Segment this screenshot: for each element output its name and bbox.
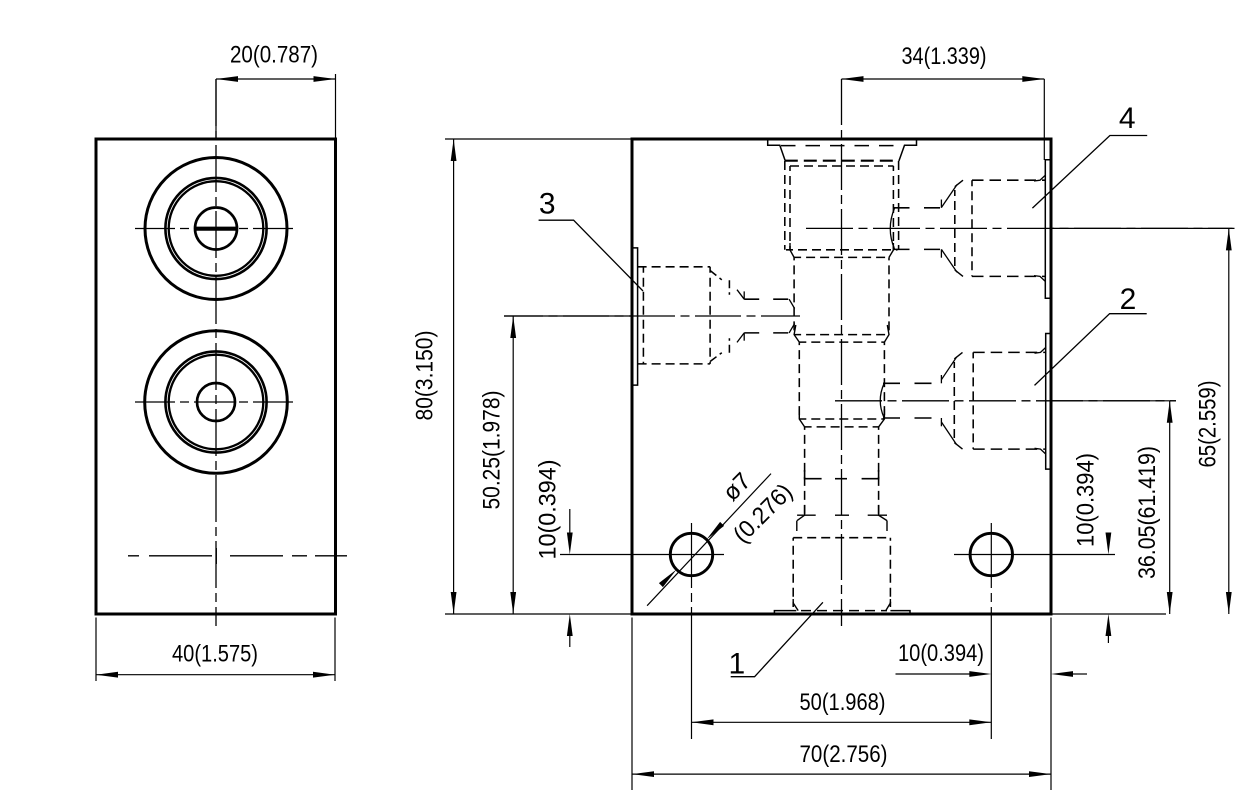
dim 34 extension right <box>1043 79 1045 160</box>
label 4 leader <box>1032 136 1147 209</box>
valve seat edge middle dash <box>835 478 847 480</box>
svg-text:20(0.787): 20(0.787) <box>230 42 318 69</box>
dia 7 arrow upper-right <box>707 522 725 540</box>
port4 thread runout bottom <box>940 249 942 257</box>
label 1 leader <box>731 602 823 676</box>
port2 pilot bore top <box>883 382 941 384</box>
port T bottom: counterbore ring outer <box>165 351 266 452</box>
cavity step 3 corner left <box>799 409 804 427</box>
dim 70 extension right <box>1050 618 1052 791</box>
dim 10 left arrow lower <box>567 614 573 636</box>
port2 chamfer corner bottom <box>954 443 962 450</box>
bolt hole left vertical centerline <box>691 523 693 739</box>
port2 counterbore bottom <box>973 448 1046 450</box>
port3 counterbore top <box>638 266 711 268</box>
port3 cone top <box>737 290 744 300</box>
bolt hole left circle <box>670 533 712 575</box>
dim 20 arrow right <box>314 76 336 82</box>
port4 boss face line <box>1045 160 1050 298</box>
port2 thread relief wall <box>953 362 955 440</box>
dim 40 dimension line <box>96 674 335 676</box>
port P top: counterbore ring inner <box>169 181 264 276</box>
svg-text:3: 3 <box>539 188 556 221</box>
thread section outer wall left <box>784 161 786 250</box>
valve seat edge left <box>805 470 822 479</box>
bottom chamfer shelf left <box>797 514 816 516</box>
svg-text:1: 1 <box>729 647 746 680</box>
port4 pilot bore top <box>894 207 942 209</box>
svg-text:36.05(61.419): 36.05(61.419) <box>1134 446 1161 579</box>
port3 cone bottom <box>737 333 744 343</box>
cavity step 2 corner right <box>884 325 889 342</box>
port P top: horizontal centerline <box>135 228 297 230</box>
bottom counterbore top edge <box>793 537 890 539</box>
cavity step 1 upper edge <box>786 249 898 251</box>
port4 counterbore bottom <box>972 275 1045 277</box>
bolt hole left horizontal centerline <box>560 554 724 556</box>
port4 counterbore tick bottom <box>1034 276 1045 282</box>
dim 80 arrow bottom <box>451 592 457 614</box>
main cavity vertical centerline <box>841 79 843 626</box>
port2 pilot bore bottom <box>883 417 941 419</box>
port2 counterbore top <box>973 351 1046 353</box>
port T bottom: outer circle <box>145 331 288 474</box>
dim 50 arrow left <box>692 719 714 725</box>
port4 chamfer corner bottom <box>955 270 963 277</box>
port2 boss face line <box>1046 334 1051 470</box>
port4 counterbore tick top <box>1034 175 1045 181</box>
bottom chamfer middle dash <box>835 514 849 516</box>
dim 10 right tail upper <box>1107 533 1109 548</box>
cavity step 2 upper edge <box>794 334 889 336</box>
dim 10 left arrow upper <box>567 533 573 555</box>
section2 wall left <box>793 257 795 334</box>
dim 20 extension lines <box>215 79 217 139</box>
port3 pilot bore bottom <box>744 332 789 334</box>
svg-text:10(0.394): 10(0.394) <box>1073 453 1100 547</box>
dim 20 arrow left <box>216 76 238 82</box>
cavity step 1 corner left <box>790 243 794 257</box>
top spot-face recess right wall <box>899 140 917 161</box>
dim 40 arrow right <box>313 672 335 678</box>
thread section inner wall left <box>789 166 791 250</box>
dim 36.05 arrow top <box>1167 401 1173 423</box>
port4 centerline <box>806 227 1235 229</box>
port2 thread runout bottom <box>940 418 942 426</box>
bottom recess left wall <box>774 611 796 614</box>
section3 wall right <box>883 342 885 419</box>
block outline right view <box>632 139 1051 614</box>
dim 10 bottom tail right <box>1073 673 1087 675</box>
dim 70 extension left <box>631 618 633 791</box>
bottom counterbore corner left <box>793 599 798 611</box>
svg-text:80(3.150): 80(3.150) <box>412 331 439 421</box>
port3 drill point bottom <box>789 324 795 333</box>
top spot-face recess left wall <box>768 140 786 161</box>
dim 40 extension lines <box>95 618 97 682</box>
port3 thread runout top <box>743 291 745 299</box>
port4 chamfer corner top <box>955 180 963 187</box>
port4 thread runout top <box>940 200 942 208</box>
block outline left view <box>96 139 336 614</box>
vertical centerline left view <box>215 79 217 626</box>
side hole plane centerline <box>128 555 347 557</box>
cavity step 2 lower edge <box>799 341 884 343</box>
dim 36.05 arrow bottom <box>1167 592 1173 614</box>
bottom recess right wall <box>890 611 910 614</box>
dim 10 left tail upper <box>569 509 571 533</box>
svg-text:70(2.756): 70(2.756) <box>800 741 888 768</box>
port4 counterbore top <box>972 179 1045 181</box>
svg-text:10(0.394): 10(0.394) <box>535 460 562 560</box>
port3 chamfer bottom <box>710 353 722 362</box>
port3 counterbore bottom <box>638 363 711 365</box>
dim 70 dimension line <box>632 773 1051 775</box>
dia 7 leader line <box>647 474 771 606</box>
label 2 leader <box>1035 314 1147 386</box>
svg-text:4: 4 <box>1119 102 1136 135</box>
dim 50.25 arrow top <box>510 316 516 338</box>
bottom counterbore neck right <box>886 521 888 531</box>
port3 thread runout bottom <box>743 333 745 341</box>
dim 34 arrow left <box>842 76 864 82</box>
svg-text:50(1.968): 50(1.968) <box>800 689 886 716</box>
port3 counterbore end wall <box>709 267 711 364</box>
port4 thread relief wall <box>954 190 956 267</box>
dim 50 arrow right <box>969 719 991 725</box>
dim 50.25 arrow bottom <box>510 592 516 614</box>
port3 thread end top <box>728 280 730 295</box>
svg-text:65(2.559): 65(2.559) <box>1195 381 1222 468</box>
thread top hidden line B <box>790 165 894 167</box>
port2 counterbore tick bottom <box>1035 448 1046 454</box>
dim 80 extension bottom (bottom edge extended left) <box>445 613 632 615</box>
cavity step 1 corner right <box>889 243 893 257</box>
thread top hidden line A <box>785 160 899 162</box>
port2 counterbore tick top <box>1035 347 1046 353</box>
cavity step 3 corner right <box>879 409 885 427</box>
bottom counterbore neck left <box>796 521 798 531</box>
bottom chamfer shelf right <box>868 514 887 516</box>
bolt hole right vertical centerline <box>990 523 992 739</box>
port P top: counterbore ring outer <box>165 178 266 279</box>
cavity step 3 upper edge <box>799 418 884 420</box>
dim 80 arrow top <box>451 139 457 161</box>
port2 centerline <box>835 400 1176 402</box>
port2 thread runout top <box>940 375 942 383</box>
bottom edge extension right <box>1051 613 1166 615</box>
bottom chamfer left <box>797 505 805 521</box>
bottom recess hidden floor <box>801 610 887 612</box>
port3 chamfer top <box>710 271 722 280</box>
svg-text:2: 2 <box>1120 283 1137 316</box>
cavity step 2 corner left <box>794 325 799 342</box>
dim 34 arrow right <box>1022 76 1044 82</box>
port2 cone top <box>941 357 956 380</box>
dim 34 dimension line <box>842 78 1045 80</box>
dim 65 dimension line <box>1228 228 1230 614</box>
dim 65 arrow bottom <box>1226 592 1232 614</box>
port4 pilot bore bottom <box>894 248 942 250</box>
port2 counterbore end wall <box>972 352 974 449</box>
svg-text:34(1.339): 34(1.339) <box>902 43 987 70</box>
section2 wall right <box>888 257 890 334</box>
label 3 leader <box>539 220 643 291</box>
dim 50 dimension line <box>692 721 992 723</box>
port4 drill point arc <box>890 208 894 249</box>
thread section outer wall right <box>898 161 900 250</box>
bolt hole right horizontal centerline <box>954 554 1115 556</box>
port2 chamfer corner top <box>954 352 962 359</box>
dim 70 arrow left <box>632 771 654 777</box>
port3 spotface hidden vertical <box>642 267 644 364</box>
thread section inner wall right <box>892 166 894 250</box>
port4 counterbore end wall <box>971 180 973 276</box>
dim 70 arrow right <box>1029 771 1051 777</box>
dim 80 dimension line <box>453 139 455 614</box>
port4 cone bottom <box>941 249 957 272</box>
port3 centerline <box>504 315 800 317</box>
port P top: plug slot bar <box>195 227 237 231</box>
dim 80 extension top <box>445 138 632 140</box>
dim 10 right arrow lower <box>1106 614 1112 636</box>
dim 10 bottom tail left <box>896 673 971 675</box>
section4 wall left <box>804 427 806 515</box>
dim 65 extension top <box>1051 227 1233 229</box>
svg-text:50.25(1.978): 50.25(1.978) <box>479 391 506 510</box>
section4 wall right <box>878 427 880 515</box>
dim 36.05 dimension line <box>1169 401 1171 614</box>
side hole plane center tick <box>215 548 217 564</box>
port3 drill point top <box>789 299 795 308</box>
dim 50.25 dimension line <box>512 316 514 614</box>
dim 40 arrow left <box>96 672 118 678</box>
cavity step 3 lower edge <box>805 426 879 428</box>
section3 wall left <box>798 342 800 419</box>
bolt hole right circle <box>970 533 1012 575</box>
dim 10 left tail lower <box>569 635 571 647</box>
dim 65 arrow top <box>1226 228 1232 250</box>
port3 thread end bottom <box>728 338 730 353</box>
dim 10 right arrow upper <box>1106 533 1112 555</box>
port2 cone bottom <box>941 422 956 445</box>
port3 pilot bore top <box>744 298 789 300</box>
port P top: inner bore circle <box>195 208 237 250</box>
bottom counterbore wall left <box>792 538 794 607</box>
dim 10 bottom arrow right part <box>1051 671 1073 677</box>
dim 10 right tail lower <box>1107 635 1109 643</box>
bottom chamfer right <box>879 505 887 521</box>
top recess hidden floor <box>781 145 903 147</box>
dim 36.05 extension top (port2 cl serves) <box>1051 400 1176 402</box>
port T bottom: counterbore ring inner <box>169 355 264 450</box>
port T bottom: horizontal centerline <box>135 401 297 403</box>
dia 7 arrow lower-left <box>659 570 677 588</box>
port3 boss face line <box>633 248 638 385</box>
port T bottom: inner bore circle <box>197 383 235 421</box>
svg-text:40(1.575): 40(1.575) <box>172 640 258 667</box>
valve seat edge right <box>862 470 879 479</box>
bottom counterbore wall right <box>889 538 891 607</box>
dim 10 bottom arrow left part <box>969 671 991 677</box>
port2 drill point arc <box>880 384 884 418</box>
svg-text:10(0.394): 10(0.394) <box>898 640 984 667</box>
bottom counterbore corner right <box>886 599 891 611</box>
port P top: outer circle <box>145 158 287 300</box>
port4 cone top <box>941 185 957 208</box>
cavity step 1 lower edge <box>794 256 889 258</box>
dim 50.25 extension top (port3 cl extended) <box>504 315 633 317</box>
dim 20 dimension line <box>216 78 336 80</box>
